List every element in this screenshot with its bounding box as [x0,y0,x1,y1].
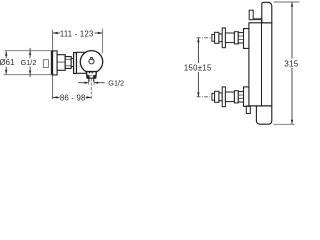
knob circle [80,51,102,73]
neck [71,58,73,66]
top knob lever pad [249,10,253,20]
dimension 111-123 extension line right [102,29,104,53]
315 extension line bottom [274,123,295,125]
wall extension line below escutcheon [52,75,54,99]
lower union centerline [197,96,215,98]
outlet centerline [90,78,92,99]
knob keyway notch [91,58,93,60]
bottom knob [256,106,271,124]
outlet nut top marks [89,72,90,74]
top knob lever arm [253,18,262,21]
housing body [77,52,91,73]
upper union taper lines [238,35,243,37]
dimension 315 line and arrows [291,2,293,124]
lower union boss [244,87,249,106]
nut hex line upper [65,58,71,60]
outlet stub right wall [93,78,94,82]
dimension 150+-15 line and arrows [197,38,199,97]
union seam [57,61,65,63]
upper union stack [212,28,244,48]
bar body [249,23,272,106]
bottom knob lever pad [246,106,250,113]
thread extension tick right [93,81,95,85]
dia61 dimension arrows [5,51,7,74]
svg-text:111 - 123: 111 - 123 [60,29,94,38]
315 extension line top [274,1,300,3]
dia61 extension line bottom [4,74,53,76]
dia61 extension line top [5,50,53,52]
svg-text:G1/2: G1/2 [21,58,37,67]
svg-text:150±15: 150±15 [184,63,212,72]
wall line beside escutcheon [51,51,53,76]
outlet stub left wall [88,78,89,82]
G1/2 outlet arrows [78,82,104,84]
dimension 86-98 line and arrows [53,96,92,98]
in-wall supply pipe [43,60,48,68]
G1/2 left dimension line and arrows [29,48,31,77]
union nut [65,57,71,69]
outlet nut dark band [87,75,96,78]
bottom joint line extension [246,105,256,107]
escutcheon plate [53,51,58,75]
top knob [262,2,272,23]
body seam line [261,20,263,106]
svg-text:315: 315 [284,60,299,69]
svg-text:Ø61: Ø61 [0,58,15,67]
dimension 111-123 line and arrows [53,32,103,34]
lower union taper lines [238,94,243,96]
wall extension line above escutcheon [52,30,54,51]
thread extension tick left [88,81,90,85]
upper union centerline [197,37,215,39]
svg-text:G1/2: G1/2 [108,78,124,87]
knob inner circle [89,59,94,64]
nut hex line lower [65,65,71,67]
upper union boss [244,29,249,49]
union body [57,55,65,71]
outlet nut notch [90,76,94,78]
lower union stack [212,87,244,107]
outlet nut [86,72,96,78]
svg-text:86 - 98: 86 - 98 [60,93,86,102]
housing flange [74,53,77,74]
